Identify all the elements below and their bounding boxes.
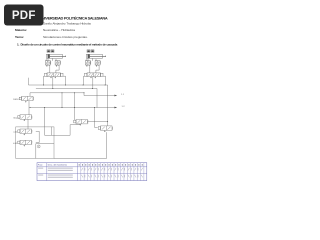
- spring: [99, 61, 102, 64]
- spring right: [87, 120, 90, 123]
- cylinder A piston: [48, 55, 50, 59]
- cylinder B body: [86, 54, 102, 58]
- spring right: [31, 141, 34, 144]
- table main column lines: [46, 163, 48, 181]
- svg-text:1.2: 1.2: [122, 106, 126, 108]
- header step numbers: [78, 164, 81, 165]
- actuator left: [18, 141, 20, 144]
- V3 top wire: [27, 127, 29, 129]
- position tick b1: [92, 58, 94, 61]
- 3/2 valve body: [76, 119, 88, 124]
- exhaust: [25, 101, 26, 103]
- junction dots bus1: [43, 85, 44, 86]
- roller: [56, 60, 57, 61]
- exhaust tick: [96, 65, 97, 67]
- cylinder B piston: [88, 55, 90, 59]
- pilot drop wire right: [65, 76, 67, 85]
- wire limit valve to main valve right (jog): [96, 65, 99, 73]
- 5/2 directional valve B: [87, 73, 101, 77]
- limit valve b1 (3/2 roller): [95, 61, 100, 65]
- pilot left: [85, 73, 88, 76]
- supply drop wire: [52, 77, 54, 89]
- supply drop wire: [92, 77, 94, 89]
- bus2 right drop to line L2: [96, 89, 98, 108]
- bottom rail to valve V6: [54, 132, 107, 158]
- 3/2 valve DER-1 body: [22, 96, 34, 101]
- sensor label b1: [91, 50, 94, 53]
- frame top stub: [50, 127, 52, 135]
- tema label: [15, 36, 24, 39]
- nombre value: [43, 23, 91, 26]
- riser to valve V5 bottom: [70, 124, 80, 135]
- subcircuit frame: [16, 127, 54, 158]
- pilot drop wire right: [105, 76, 107, 85]
- row phase labels: [38, 167, 43, 170]
- position tick b0: [87, 58, 89, 61]
- heading 1: [17, 44, 117, 47]
- drop to L2: [61, 93, 63, 108]
- exhaust: [24, 134, 25, 136]
- tema value: [43, 36, 88, 39]
- pilot drop from V1 line to valve V5: [74, 93, 76, 120]
- 5/2 directional valve A: [47, 73, 61, 77]
- actuator left: [18, 116, 20, 119]
- cylinder B rod: [89, 55, 106, 57]
- V3 right side wire: [36, 131, 39, 142]
- actuator left: [19, 97, 21, 100]
- step column lines: [81, 163, 144, 181]
- svg-text:1.1: 1.1: [121, 94, 125, 96]
- sensor label a1: [51, 50, 54, 53]
- V1 output drop to L2 and valve V2: [28, 101, 30, 115]
- svg-text:Desc. del movimiento: Desc. del movimiento: [48, 164, 68, 167]
- 3/2 valve body: [101, 126, 113, 130]
- exhaust tick: [56, 65, 57, 67]
- table row lines: [37, 166, 147, 168]
- bus1 left riser: [28, 78, 30, 85]
- roller: [46, 60, 47, 61]
- sensor label b0: [87, 50, 90, 53]
- drop to L1: [83, 93, 85, 96]
- cylinder A rod: [49, 55, 66, 57]
- pilot right: [61, 73, 64, 76]
- position tick a1: [52, 58, 54, 61]
- exhaust: [24, 119, 25, 121]
- 3/2 valve b1-1 body: [20, 140, 32, 145]
- actuator left: [98, 127, 100, 130]
- line L1: [84, 95, 115, 97]
- limit valve b0 (3/2 roller): [85, 61, 90, 65]
- actuator left: [74, 120, 76, 123]
- drop from L2 to valve V6 pilot: [95, 108, 98, 128]
- spring right: [111, 127, 114, 130]
- exhaust: [24, 145, 25, 147]
- V2 bottom wire into frame: [27, 119, 29, 127]
- 3/2 valve IZQ-1 body: [20, 115, 32, 120]
- exhaust tick: [46, 65, 47, 67]
- row description text smudge: [48, 167, 73, 170]
- position tick a0: [47, 58, 49, 61]
- exhaust: [104, 130, 105, 132]
- compressor symbol: [37, 145, 40, 148]
- 3/2 valve a1-1 body: [20, 129, 32, 134]
- pilot left: [45, 73, 48, 76]
- air supply inner box: [35, 144, 37, 159]
- pilot drop wire left: [43, 76, 45, 85]
- roller: [96, 60, 97, 61]
- exhaust silencers: [51, 77, 52, 79]
- pressure bus 1: [29, 84, 108, 86]
- actuator left: [18, 130, 20, 133]
- roller: [86, 60, 87, 61]
- limit valve a0 (3/2 roller): [45, 61, 50, 65]
- L2 drop into frame region: [44, 108, 46, 136]
- limit valve a1 (3/2 roller): [55, 61, 60, 65]
- horizontal link y135: [45, 134, 71, 136]
- materia value: [43, 29, 75, 32]
- spring right: [31, 116, 34, 119]
- exhaust silencers: [91, 77, 92, 79]
- pilot right: [101, 73, 104, 76]
- spring: [49, 61, 52, 64]
- title: UNIVERSIDAD POLITECNICA SALESIANA: [40, 17, 108, 21]
- spring right: [32, 97, 35, 100]
- PDF badge: [4, 5, 44, 26]
- wire limit valve to main valve left: [89, 65, 91, 73]
- materia label: [15, 29, 27, 32]
- results table frame: [37, 163, 147, 181]
- spring: [89, 61, 92, 64]
- pilot drop wire left: [83, 76, 85, 85]
- exhaust: [80, 124, 81, 126]
- exhaust tick: [86, 65, 87, 67]
- waveform row 2: [81, 175, 142, 178]
- spring right: [31, 130, 34, 133]
- junction dots bus2: [52, 88, 53, 89]
- waveform row 1: [81, 168, 142, 171]
- cylinder A body: [46, 54, 62, 58]
- wire limit valve to main valve left: [49, 65, 51, 73]
- V5 output wire: [88, 121, 108, 123]
- line L2: [30, 107, 115, 109]
- sensor label a0: [47, 50, 50, 53]
- bus1 right drop to valve V6: [107, 85, 109, 126]
- bus 2: [36, 88, 97, 90]
- wire limit valve to main valve right (jog): [56, 65, 59, 73]
- spring: [59, 61, 62, 64]
- valve V1 output line: [29, 93, 31, 97]
